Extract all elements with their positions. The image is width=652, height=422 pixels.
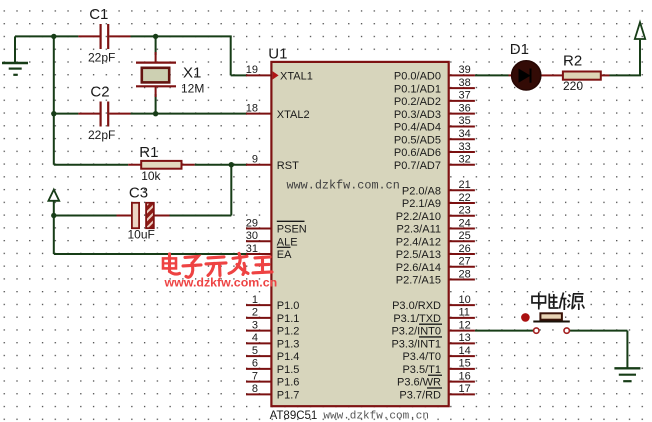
svg-text:22: 22 bbox=[459, 192, 471, 204]
svg-text:www.dzkfw.com.cn: www.dzkfw.com.cn bbox=[323, 411, 429, 422]
svg-text:P2.3/A11: P2.3/A11 bbox=[397, 224, 441, 236]
svg-text:30: 30 bbox=[246, 230, 258, 242]
svg-text:P0.3/AD3: P0.3/AD3 bbox=[394, 109, 441, 121]
svg-text:16: 16 bbox=[459, 370, 471, 382]
svg-text:33: 33 bbox=[459, 141, 471, 153]
svg-text:6: 6 bbox=[252, 358, 258, 370]
svg-text:10uF: 10uF bbox=[128, 228, 155, 242]
svg-text:27: 27 bbox=[459, 256, 471, 268]
svg-text:P3.4/T0: P3.4/T0 bbox=[402, 351, 441, 363]
svg-text:C2: C2 bbox=[90, 84, 109, 101]
svg-text:P2.7/A15: P2.7/A15 bbox=[396, 275, 441, 287]
svg-text:PSEN: PSEN bbox=[277, 224, 307, 236]
svg-text:4: 4 bbox=[252, 332, 258, 344]
svg-text:5: 5 bbox=[252, 345, 258, 357]
svg-text:AT89C51: AT89C51 bbox=[270, 410, 318, 422]
svg-text:19: 19 bbox=[246, 64, 258, 76]
svg-text:P1.5: P1.5 bbox=[277, 364, 300, 376]
svg-text:37: 37 bbox=[459, 90, 471, 102]
svg-text:X1: X1 bbox=[183, 65, 201, 82]
svg-text:P0.5/AD5: P0.5/AD5 bbox=[394, 134, 441, 146]
svg-text:12M: 12M bbox=[181, 82, 204, 96]
svg-text:38: 38 bbox=[459, 77, 471, 89]
svg-text:15: 15 bbox=[459, 358, 471, 370]
svg-text:11: 11 bbox=[459, 307, 470, 319]
svg-text:23: 23 bbox=[459, 205, 471, 217]
svg-text:34: 34 bbox=[459, 128, 471, 140]
svg-text:18: 18 bbox=[246, 103, 258, 115]
svg-text:P3.0/RXD: P3.0/RXD bbox=[392, 300, 441, 312]
svg-text:24: 24 bbox=[459, 217, 471, 229]
svg-text:EA: EA bbox=[277, 249, 292, 261]
svg-text:9: 9 bbox=[252, 154, 258, 166]
svg-text:P2.2/A10: P2.2/A10 bbox=[396, 211, 441, 223]
svg-text:P2.5/A13: P2.5/A13 bbox=[396, 249, 441, 261]
svg-text:ALE: ALE bbox=[277, 236, 298, 248]
svg-text:P3.6/WR: P3.6/WR bbox=[397, 377, 441, 389]
svg-text:P2.4/A12: P2.4/A12 bbox=[396, 236, 441, 248]
svg-text:P1.3: P1.3 bbox=[277, 339, 300, 351]
svg-text:13: 13 bbox=[459, 332, 471, 344]
svg-text:P1.0: P1.0 bbox=[277, 300, 300, 312]
svg-text:www.dzkfw.com.cn: www.dzkfw.com.cn bbox=[287, 179, 400, 193]
svg-text:21: 21 bbox=[459, 179, 471, 191]
svg-text:P1.6: P1.6 bbox=[277, 377, 300, 389]
svg-text:P1.1: P1.1 bbox=[277, 313, 300, 325]
svg-text:36: 36 bbox=[459, 103, 471, 115]
svg-text:P0.7/AD7: P0.7/AD7 bbox=[394, 160, 441, 172]
svg-text:7: 7 bbox=[252, 370, 258, 382]
svg-text:3: 3 bbox=[252, 319, 258, 331]
svg-text:8: 8 bbox=[252, 383, 258, 395]
svg-text:25: 25 bbox=[459, 230, 471, 242]
svg-text:12: 12 bbox=[459, 319, 471, 331]
svg-text:P2.1/A9: P2.1/A9 bbox=[402, 198, 441, 210]
svg-text:P0.1/AD1: P0.1/AD1 bbox=[394, 83, 441, 95]
svg-text:31: 31 bbox=[246, 243, 258, 255]
svg-text:P0.2/AD2: P0.2/AD2 bbox=[394, 96, 441, 108]
svg-text:R1: R1 bbox=[139, 144, 158, 161]
svg-text:P1.7: P1.7 bbox=[277, 390, 300, 402]
svg-text:P2.6/A14: P2.6/A14 bbox=[396, 262, 441, 274]
svg-text:22pF: 22pF bbox=[88, 51, 115, 65]
svg-text:28: 28 bbox=[459, 268, 471, 280]
svg-text:U1: U1 bbox=[268, 46, 287, 63]
svg-text:P3.7/RD: P3.7/RD bbox=[399, 390, 441, 402]
svg-text:14: 14 bbox=[459, 345, 471, 357]
svg-text:1: 1 bbox=[252, 294, 258, 306]
svg-text:P1.2: P1.2 bbox=[277, 326, 300, 338]
svg-text:P1.4: P1.4 bbox=[277, 351, 300, 363]
svg-text:XTAL2: XTAL2 bbox=[277, 109, 310, 121]
svg-text:P3.2/INT0: P3.2/INT0 bbox=[391, 326, 441, 338]
svg-text:XTAL1: XTAL1 bbox=[280, 71, 313, 83]
svg-text:R2: R2 bbox=[563, 52, 582, 69]
svg-text:10k: 10k bbox=[141, 169, 161, 183]
svg-text:P0.4/AD4: P0.4/AD4 bbox=[394, 122, 441, 134]
svg-text:26: 26 bbox=[459, 243, 471, 255]
svg-text:P3.5/T1: P3.5/T1 bbox=[402, 364, 441, 376]
svg-text:P3.3/INT1: P3.3/INT1 bbox=[391, 339, 441, 351]
svg-text:220: 220 bbox=[563, 79, 583, 93]
svg-text:P0.6/AD6: P0.6/AD6 bbox=[394, 147, 441, 159]
svg-text:P0.0/AD0: P0.0/AD0 bbox=[394, 71, 441, 83]
svg-text:P3.1/TXD: P3.1/TXD bbox=[393, 313, 441, 325]
svg-text:C1: C1 bbox=[89, 6, 108, 23]
svg-text:32: 32 bbox=[459, 154, 471, 166]
svg-text:D1: D1 bbox=[510, 41, 529, 58]
svg-text:RST: RST bbox=[277, 160, 299, 172]
svg-text:C3: C3 bbox=[129, 184, 148, 201]
svg-text:www.dzkfw.com.cn: www.dzkfw.com.cn bbox=[164, 276, 278, 290]
svg-text:P2.0/A8: P2.0/A8 bbox=[402, 185, 441, 197]
svg-text:22pF: 22pF bbox=[88, 128, 115, 142]
svg-text:39: 39 bbox=[459, 64, 471, 76]
svg-text:29: 29 bbox=[246, 217, 258, 229]
svg-text:10: 10 bbox=[459, 294, 471, 306]
svg-text:17: 17 bbox=[459, 383, 471, 395]
svg-text:2: 2 bbox=[252, 307, 258, 319]
svg-text:35: 35 bbox=[459, 115, 471, 127]
